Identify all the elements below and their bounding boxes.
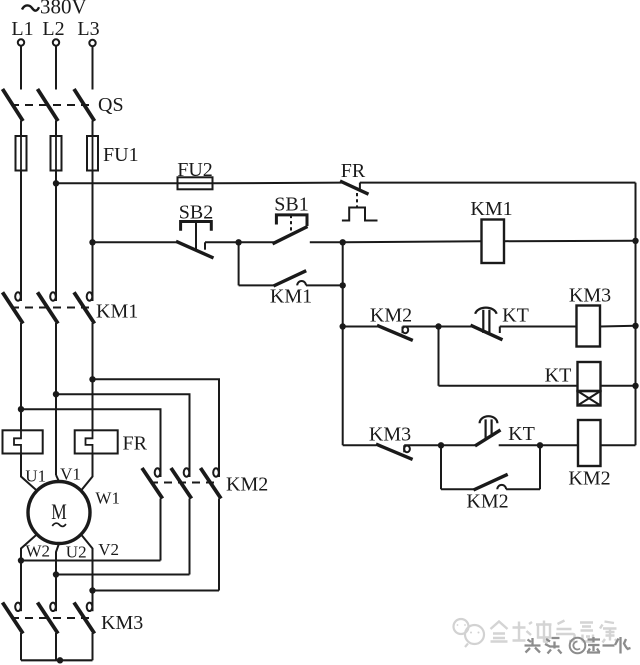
wire row4 node down to KT coil row (438, 327, 440, 386)
fuse FU1 (three fuses) (16, 136, 139, 171)
svg-text:KM2: KM2 (466, 491, 508, 513)
wire KM2 coil to rail corner (601, 444, 636, 446)
node V2 tap (89, 587, 95, 593)
wire to KT coil (439, 385, 578, 387)
thermal contact FR (NC, control) (340, 160, 378, 221)
coil KT (time relay, off-delay marked) (545, 362, 601, 406)
node KT row at rail (632, 383, 638, 389)
wire L3 below KM1 (92, 323, 94, 430)
svg-text:KT: KT (508, 423, 535, 445)
contactor KM3 main contacts (star) (3, 602, 144, 634)
svg-text:KT: KT (545, 365, 572, 387)
node control tap on L3 (89, 239, 95, 245)
wire tap L2 to KM2 pole2 (56, 394, 190, 466)
svg-text:L3: L3 (77, 18, 99, 40)
wire L1 FU1 to KM1 (20, 171, 22, 293)
watermark text 全球电气资源 (drawn strokes) (491, 621, 618, 643)
wire to KM1 aux (239, 284, 275, 286)
node KM1 aux right junction (340, 282, 346, 288)
wire right rail (635, 183, 637, 446)
contact KM2 (NC interlock) (370, 305, 439, 341)
wire L3 QS to FU1 (92, 121, 94, 137)
node FU2 tap on L2 (53, 180, 59, 186)
node star point (57, 657, 63, 663)
wire L2 to FU2 (56, 182, 178, 184)
svg-text:U1: U1 (25, 467, 46, 486)
contact KM3 (NC interlock) (369, 424, 441, 460)
wire U2 tap to KM2 pole2 bottom (56, 574, 190, 576)
wire L2 drop to QS (55, 46, 57, 90)
svg-text:KM1: KM1 (470, 198, 512, 220)
wire W2 from motor (21, 534, 37, 602)
motor M (28, 482, 90, 544)
label ~380V (22, 5, 39, 10)
svg-text:FU1: FU1 (103, 144, 139, 166)
svg-text:KM1: KM1 (96, 301, 138, 323)
wire W2 tap to KM2 pole1 bottom (21, 560, 161, 562)
wire V2 tap to KM2 pole3 bottom (93, 590, 220, 592)
node delta tap L1 (18, 406, 24, 412)
fuse FU2 (177, 159, 213, 189)
wire KM2 pole3 bottom (218, 499, 220, 591)
svg-text:KM2: KM2 (370, 305, 412, 327)
svg-text:KM3: KM3 (101, 612, 143, 634)
svg-text:QS: QS (98, 94, 124, 116)
pushbutton SB1 (NO start) (273, 194, 343, 244)
switch QS (3, 89, 124, 121)
wire L3 tap to SB2 (93, 241, 178, 243)
wire to KM2 aux (441, 488, 475, 490)
svg-text:V1: V1 (60, 465, 81, 484)
wire branch down from SB2 node (238, 242, 240, 285)
wire to KT NC delayed (439, 326, 472, 328)
wire KM2 aux up to node (539, 445, 541, 489)
wire tap L3 to KM2 pole3 (93, 379, 220, 466)
wire KT coil to rail (601, 385, 636, 387)
node KM1 row at rail (632, 238, 638, 244)
wire L2 FU1 to KM1 (55, 171, 57, 293)
watermark logo face (454, 619, 485, 647)
wire to KM1 coil (343, 241, 482, 242)
wire star pole2 down (55, 633, 57, 660)
coil KM3 (569, 285, 611, 347)
wire V2 from motor (81, 534, 93, 602)
node KT NO right junction (537, 442, 543, 448)
pushbutton SB2 (NC stop) (176, 202, 239, 259)
wire tap L1 to KM2 pole1 (21, 409, 161, 466)
wire KM2 pole1 bottom (160, 499, 162, 561)
contact KT (NO delayed closing) (475, 416, 540, 446)
thermal relay FR heater element phase L1 (3, 430, 43, 453)
contactor KM1 main contacts (3, 292, 139, 323)
wire star pole1 down (20, 633, 22, 660)
node delta tap L2 (53, 391, 59, 397)
wire W1 into motor (81, 454, 93, 492)
wire to KM2 coil (540, 444, 578, 446)
svg-text:U2: U2 (66, 543, 87, 562)
wire L3 FU1 to KM1 (92, 171, 94, 293)
thermal relay FR heater element phase L3 (75, 430, 148, 454)
svg-text:KM2: KM2 (226, 474, 268, 496)
node L3 terminal (77, 18, 99, 46)
wire FU2 to FR contact (213, 182, 342, 185)
wire node to SB1 (239, 241, 275, 243)
wire L3 drop to QS (92, 46, 94, 89)
svg-text:KT: KT (502, 305, 529, 327)
coil KM1 (470, 198, 512, 263)
svg-text:V2: V2 (98, 540, 119, 559)
node L1 terminal (11, 18, 33, 46)
svg-text:KM2: KM2 (568, 468, 610, 490)
wire L1 drop to QS (20, 46, 22, 90)
contact KM1 auxiliary (NO self-hold) (270, 271, 343, 308)
coil KM2 (568, 420, 610, 490)
wire U2 from motor (56, 544, 59, 603)
node delta tap L3 (89, 376, 95, 382)
wire L2 below KM1 (55, 323, 57, 475)
node U2 tap (53, 571, 59, 577)
svg-text:L1: L1 (11, 18, 33, 40)
wire L1 QS to FU1 (20, 121, 22, 137)
svg-text:SB1: SB1 (274, 194, 308, 216)
svg-text:FR: FR (341, 160, 366, 182)
svg-text:FR: FR (123, 433, 148, 455)
watermark text 头条@泵一代 (drawn strokes) (525, 637, 631, 654)
svg-text:KM3: KM3 (369, 424, 411, 446)
node KM3 row at rail (632, 323, 638, 329)
wire L1 below KM1 (20, 323, 22, 430)
wire KM2 aux branch down-left (440, 445, 442, 489)
wire to KT NO delayed (441, 444, 476, 446)
svg-text:W1: W1 (95, 489, 120, 508)
svg-text:L2: L2 (42, 18, 64, 40)
node row6 mid junction (438, 442, 444, 448)
node SB2/SB1/KM1aux junction (235, 239, 241, 245)
svg-text:M: M (51, 499, 67, 524)
node W2 tap (18, 557, 24, 563)
contact KT (NC delayed opening) (471, 305, 578, 340)
contactor KM2 main contacts (delta) (142, 466, 268, 499)
svg-text:KM1: KM1 (270, 286, 312, 308)
svg-text:KM3: KM3 (569, 285, 611, 307)
wire left control rail (342, 242, 344, 445)
wire star pole3 down (92, 633, 94, 660)
svg-text:W2: W2 (26, 542, 51, 561)
wire KM2 pole2 bottom (189, 499, 191, 575)
wire row6 from left rail (343, 444, 377, 446)
wire KM1 coil to right rail (504, 240, 636, 242)
wire U1 into motor (21, 454, 37, 492)
svg-text:380V: 380V (40, 0, 87, 19)
node L2 terminal (42, 18, 64, 46)
svg-text:FU2: FU2 (177, 159, 213, 181)
wire KM3 coil to rail (600, 325, 636, 328)
wire L2 QS to FU1 (55, 121, 57, 137)
wire V1 into motor (56, 475, 59, 482)
node SB1 right junction (340, 239, 346, 245)
contact KM2 auxiliary (NO self-hold) (466, 474, 540, 512)
wire FR to right rail (360, 182, 636, 184)
node left rail row4 (340, 323, 346, 329)
wire star point bar (21, 659, 93, 661)
node row4 mid junction (435, 323, 441, 329)
wire row4 to KM2 NC (343, 326, 378, 328)
